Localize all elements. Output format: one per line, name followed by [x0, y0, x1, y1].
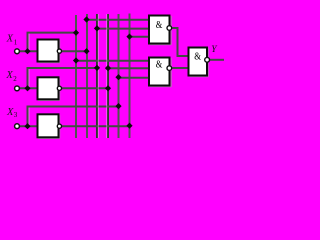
wire X3 riser and over-wire to rail E: [28, 107, 119, 127]
junction rail B / gate1 input1: [83, 16, 89, 22]
inverter U2 box: [38, 77, 59, 99]
inverter U2 output bubble: [57, 86, 61, 90]
box shadows: [38, 16, 208, 139]
wire gate2 input1 from rail A: [76, 60, 149, 62]
wire rail B (NOT X1 bus): [86, 14, 88, 138]
junction rail E / gate2 input3: [115, 74, 121, 80]
input terminal X1: [15, 49, 20, 54]
junction rail F / gate1 input3: [126, 34, 132, 40]
svg-text:X: X: [5, 70, 13, 81]
wire X1 riser and over-wire to rail A: [28, 33, 77, 52]
wire rail E (X3 bus): [118, 14, 120, 138]
wire gate1 input2 from rail C: [97, 28, 149, 30]
wire gate1 input3 from rail F: [130, 36, 150, 38]
inverter U1 output bubble: [57, 49, 61, 53]
junction node X1 input: [24, 48, 30, 54]
nand gate U4 box: [149, 16, 170, 44]
nand gate U6 output bubble: [205, 57, 210, 62]
wire X2 input to inverter: [20, 87, 38, 89]
junction rail A / gate2 input1: [73, 57, 79, 63]
junction rail A / X1 over-wire: [73, 30, 79, 36]
wire gate3 output: [209, 59, 224, 61]
wire gate1 output to gate3 input1: [172, 28, 188, 56]
wire gate1 input1 from rail B: [87, 19, 150, 21]
nand gate U5 output bubble: [167, 66, 172, 71]
junction node X2 input: [24, 85, 30, 91]
inverter U1 box: [38, 40, 59, 62]
wire X2 riser and over-wire to rail C: [28, 68, 98, 88]
junction rail D / inverter2 output: [105, 85, 111, 91]
wire rail F (NOT X3 bus): [129, 14, 131, 139]
svg-text:&: &: [156, 59, 163, 70]
junction rail D / gate2 input2: [105, 65, 111, 71]
inverter U3 box: [38, 114, 59, 137]
wire gate2 input3 from rail E: [119, 77, 150, 79]
nand gate U6 box: [189, 48, 208, 76]
rail highlight halos: [29, 14, 107, 138]
junction rail C / X2 over-wire: [94, 65, 100, 71]
svg-text:&: &: [194, 52, 201, 63]
svg-text:X: X: [6, 33, 14, 44]
nand gate U5 box: [149, 58, 170, 86]
junction rail B / inverter1 output: [83, 48, 89, 54]
input terminal X3: [15, 124, 20, 129]
wire inverter3 output to rail F: [62, 125, 130, 127]
svg-text:3: 3: [14, 111, 18, 119]
wire X1 input to inverter: [20, 50, 38, 52]
svg-text:2: 2: [13, 75, 17, 83]
junction rail C / gate1 input2: [94, 25, 100, 31]
wire gate2 input2 from rail D: [108, 67, 149, 69]
wire X3 input to inverter: [20, 125, 38, 127]
wire gate2 output to gate3 input2: [172, 67, 188, 69]
wire rail C (X2 bus): [96, 14, 98, 138]
wire rail A (X1 bus): [75, 15, 77, 138]
junction node X3 input: [24, 123, 30, 129]
svg-text:1: 1: [14, 38, 18, 46]
wire inverter2 output to rail D: [62, 87, 108, 89]
svg-text:&: &: [156, 20, 163, 31]
input terminal X2: [15, 86, 20, 91]
nand gate U4 output bubble: [167, 26, 172, 31]
inverter U3 output bubble: [57, 124, 61, 128]
junction rail E / X3 over-wire: [115, 103, 121, 109]
junction rail F / inverter3 output: [126, 123, 132, 129]
wire inverter1 output to rail B: [62, 50, 87, 52]
wire rail D (NOT X2 bus): [107, 14, 109, 138]
